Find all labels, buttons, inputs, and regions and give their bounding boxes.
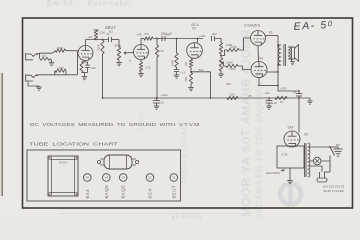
- svg-text:100K: 100K: [57, 66, 64, 70]
- wire B+ rail: [103, 97, 311, 99]
- tube V3 6AQ5: [251, 30, 273, 45]
- wire rail to rectifier: [298, 98, 300, 133]
- resistor R3 100K mixer: [55, 66, 66, 75]
- svg-text:V2: V2: [192, 27, 196, 31]
- ground speaker: [290, 59, 295, 65]
- tube V4 6AQ5: [251, 57, 267, 78]
- svg-text:+200: +200: [161, 93, 168, 97]
- svg-text:V1: V1: [172, 176, 176, 180]
- ground under R9: [218, 71, 224, 77]
- svg-text:6AQ5: 6AQ5: [104, 185, 109, 199]
- svg-text:INDUSTRIAL: INDUSTRIAL: [180, 124, 189, 183]
- resistor R5 47K plate load: [144, 32, 153, 40]
- svg-text:Pacemaker: Pacemaker: [88, 1, 132, 8]
- capacitor C1 .02 coupling: [106, 32, 119, 42]
- svg-text:TUBE LOCATION CHART: TUBE LOCATION CHART: [29, 141, 119, 146]
- svg-text:6X4: 6X4: [85, 189, 90, 199]
- wire V2 plate: [197, 38, 199, 43]
- capacitor C6 20uF filter: [266, 98, 278, 109]
- transformer T1 core: [284, 44, 286, 66]
- svg-text:DC VOLTAGES MEASURED TO GR: DC VOLTAGES MEASURED TO GROUND WITH V.T.…: [30, 122, 201, 127]
- wire B+ rail top stub: [94, 29, 99, 31]
- svg-text:V5: V5: [304, 133, 308, 137]
- transformer T1 secondary: [288, 47, 290, 59]
- svg-text:250µµF: 250µµF: [161, 32, 172, 36]
- ground stub of J2: [28, 82, 42, 91]
- resistor R6 470K divider: [171, 38, 179, 67]
- resistor R4b 220K divider: [97, 40, 104, 99]
- note DC voltages: [30, 122, 201, 127]
- tube V2 6C4: [187, 43, 203, 59]
- svg-text:TR 58 P: TR 58 P: [59, 161, 68, 164]
- node +20 cathode: [265, 91, 270, 95]
- svg-text:470K: 470K: [171, 60, 175, 66]
- socket V5 6X4: [84, 174, 92, 199]
- svg-text:2.2K: 2.2K: [145, 66, 151, 70]
- wire V5 to transformer: [288, 145, 296, 148]
- pilot lamp PL1: [310, 157, 322, 165]
- tube V1a 6EU7 first triode: [78, 46, 93, 61]
- ground under pot: [116, 60, 122, 66]
- svg-text:270K: 270K: [230, 45, 237, 49]
- svg-text:47K: 47K: [159, 49, 164, 53]
- resistor R10 270K grid V3: [227, 45, 239, 52]
- svg-text:+1: +1: [128, 59, 132, 63]
- jack J2 input 2: [26, 74, 38, 81]
- svg-text:6.3V: 6.3V: [281, 152, 287, 156]
- svg-text:1M: 1M: [42, 54, 47, 58]
- svg-text:270K: 270K: [229, 67, 236, 71]
- capacitor C4 .002 coupling: [211, 32, 217, 41]
- resistor R4 220K plate load: [94, 30, 105, 40]
- node +200: [161, 93, 168, 97]
- svg-text:+20: +20: [265, 91, 270, 95]
- resistor R8 100K upper: [219, 43, 232, 55]
- svg-text:50-60 CYCLES: 50-60 CYCLES: [323, 189, 344, 193]
- wire splitter to R10: [221, 50, 227, 56]
- capacitor C7 20uF filter: [293, 90, 302, 98]
- capacitor C2 250uuF: [161, 32, 172, 41]
- label 6EU7 V1: [105, 25, 116, 34]
- label tube location chart: [29, 141, 119, 146]
- plug P1 AC line: [317, 161, 330, 182]
- node .05: [248, 94, 252, 98]
- svg-text:EA- 50: EA- 50: [293, 19, 334, 33]
- svg-text:20: 20: [293, 90, 297, 94]
- wire splitter to R11: [220, 61, 226, 66]
- svg-text:56K: 56K: [184, 76, 188, 81]
- wire V4 plate to OPT: [267, 71, 279, 73]
- label line voltage: [323, 185, 344, 193]
- svg-text:MOOR YA S0T AMAHB AJOMR: MOOR YA S0T AMAHB AJOMR: [241, 29, 253, 217]
- svg-text:220K: 220K: [99, 31, 105, 35]
- svg-text:EA-50 amp: EA-50 amp: [172, 215, 202, 219]
- svg-text:+20: +20: [272, 101, 277, 105]
- svg-text:EA-50: EA-50: [47, 1, 74, 8]
- vertical B+ feed wire: [156, 39, 158, 99]
- svg-text:VACAWKER-1B TOA JAQOMIV BA: VACAWKER-1B TOA JAQOMIV BA: [254, 63, 264, 219]
- cathode network V1a: [80, 60, 96, 79]
- resistor R14 47K dropping: [155, 45, 163, 57]
- capacitor C5 20uF filter: [153, 97, 164, 109]
- wire HV bottom tap to plug: [310, 166, 323, 172]
- resistor R11 270K grid V4: [226, 64, 238, 71]
- node +20 plate V1a: [87, 35, 92, 39]
- svg-text:20: 20: [160, 101, 164, 105]
- wire B+ 320 line: [278, 90, 299, 92]
- svg-text:6C4: 6C4: [148, 189, 153, 199]
- wire V3 plate to OPT: [266, 36, 282, 92]
- svg-text:V3: V3: [269, 30, 273, 34]
- wire C4 to splitter: [215, 39, 222, 43]
- svg-text:.05: .05: [248, 94, 252, 98]
- svg-text:V3: V3: [122, 176, 126, 180]
- node +320: [280, 86, 287, 90]
- wire V1b plate: [141, 39, 144, 45]
- tube V1b 6EU7 second triode: [134, 45, 149, 60]
- node +100 plate V2: [199, 34, 206, 38]
- jack J1 input 1: [26, 53, 38, 60]
- wire cathode line: [258, 85, 279, 87]
- chart box: [27, 150, 181, 201]
- wire riser to grid: [77, 52, 79, 75]
- resistor R1 1M grid leak: [40, 53, 51, 60]
- cathode network V1b: [138, 60, 151, 77]
- socket V4 6AQ5: [103, 174, 111, 199]
- socket V1 6EU7: [170, 174, 178, 199]
- svg-text:V4: V4: [259, 57, 263, 61]
- svg-text:500K: 500K: [114, 44, 122, 48]
- transformer T2 power primary box: [277, 146, 304, 168]
- wire R2 to V1 grid: [66, 50, 79, 52]
- resistor R2 100K mixer: [56, 46, 66, 53]
- svg-text:220K: 220K: [97, 44, 101, 50]
- ground rail end: [307, 98, 312, 104]
- svg-text:.002: .002: [211, 32, 217, 36]
- node +1 cathode V1b: [128, 59, 132, 63]
- resistor R13 1K dropping: [275, 96, 287, 104]
- speaker SP1: [288, 45, 298, 62]
- svg-text:2-6AQ5'S: 2-6AQ5'S: [244, 24, 261, 28]
- svg-text:220: 220: [91, 66, 96, 70]
- svg-text:+95: +95: [137, 32, 142, 36]
- output transformer top view: [97, 155, 138, 169]
- svg-text:1K: 1K: [280, 100, 284, 104]
- svg-text:6X4: 6X4: [288, 126, 294, 130]
- resistor R9 220K lower: [219, 58, 233, 72]
- svg-text:100K: 100K: [57, 46, 64, 50]
- wire cathode to rail: [191, 72, 211, 98]
- svg-text:+320: +320: [280, 86, 287, 90]
- wire HV top tap: [310, 146, 331, 148]
- svg-text:10K: 10K: [184, 61, 188, 66]
- wire R10 to V3 grid: [239, 38, 251, 50]
- svg-text:V2: V2: [148, 176, 152, 180]
- ground power transformer: [287, 168, 293, 184]
- node junction splitter: [220, 54, 222, 58]
- ground under R1: [49, 59, 55, 66]
- socket V3 6AQ5: [119, 174, 127, 199]
- svg-text:6EU7: 6EU7: [171, 185, 176, 199]
- node +95 plate V1b: [137, 32, 142, 36]
- svg-text:600: 600: [336, 143, 341, 147]
- svg-text:HEATERS: HEATERS: [266, 171, 280, 175]
- wire V1a plate: [86, 39, 109, 46]
- svg-text:V5: V5: [86, 176, 90, 180]
- svg-text:V1: V1: [109, 30, 113, 34]
- svg-text:325: 325: [226, 82, 231, 86]
- socket V2 6C4: [146, 174, 154, 199]
- capacitor C3 bypass: [174, 67, 186, 78]
- label HEATERS: [266, 170, 284, 175]
- node 325: [226, 82, 231, 86]
- svg-text:47K: 47K: [144, 32, 149, 36]
- wire plate node to V2 grid: [153, 38, 203, 40]
- transformer T2 core: [305, 143, 306, 177]
- svg-text:.02: .02: [106, 32, 110, 36]
- svg-text:6AQ5: 6AQ5: [121, 185, 126, 199]
- cathode resistor R7 10K: [184, 58, 204, 73]
- capacitor C8 line filter: [334, 143, 343, 156]
- wire R11 to V4 grid: [238, 66, 251, 70]
- power transformer top view: [48, 156, 78, 196]
- potentiometer 500K volume: [114, 40, 133, 61]
- tube V5 6X4 rectifier: [284, 126, 308, 147]
- switch S1: [330, 147, 338, 156]
- wire J1 to grid node: [35, 51, 56, 55]
- label 2-6AQ5S: [244, 24, 261, 28]
- wire pilot to switch: [321, 156, 330, 162]
- label 6C4 V2: [191, 22, 199, 31]
- resistor R12 22K dropping: [227, 92, 238, 99]
- svg-text:V4: V4: [105, 176, 109, 180]
- transformer T2 HV winding: [308, 143, 310, 177]
- resistor R7b 56K bias: [184, 73, 194, 91]
- wire J2 to grid riser: [35, 74, 77, 77]
- svg-text:560: 560: [199, 68, 204, 72]
- svg-text:+1.5: +1.5: [180, 71, 186, 75]
- transformer T1 output primary: [279, 45, 281, 65]
- svg-text:22K: 22K: [230, 92, 235, 96]
- wire cathode bus: [258, 46, 259, 86]
- svg-text:+20: +20: [87, 35, 92, 39]
- svg-text:+100: +100: [199, 34, 206, 38]
- svg-text:220K: 220K: [226, 61, 233, 65]
